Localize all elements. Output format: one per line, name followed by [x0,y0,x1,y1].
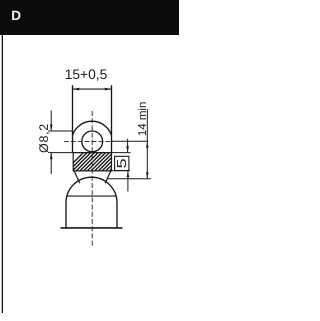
eyelet boss outer arc [73,121,112,135]
svg-text:14 min: 14 min [137,102,149,137]
dimension Ø8,2 upper arrow [50,111,52,132]
socket cup dome seam chord [67,195,116,197]
extension line socket shoulder (14 min bottom) [108,178,152,180]
eyelet hole circle Ø8,2 [82,131,103,152]
socket cup bottom edge [61,227,123,229]
socket cup left side [65,203,67,228]
weld neck left side [74,171,80,183]
horizontal centerline [64,140,113,142]
socket cup right side [116,203,118,228]
washer hatch lines [64,151,129,172]
boxed dimension text 5 [115,156,129,170]
svg-text:D: D [11,8,21,23]
extension line hole top tangent [48,130,72,132]
dimension Ø8,2 lower arrow [50,153,52,174]
washer hatched band [73,153,111,171]
dimension 5 upper outside arrow [127,139,129,153]
svg-text:15+0,5: 15+0,5 [65,67,108,82]
extension line hole bottom tangent / washer top [48,152,130,154]
socket cup domed top arc [66,177,117,202]
svg-text:5: 5 [114,158,129,168]
dimension 5 lower outside arrow [127,171,129,192]
weld neck right side [105,171,111,183]
arrowhead 14 min down [146,172,149,179]
dimension line 14 min [146,109,148,179]
eyelet block right side / extension line [111,85,113,153]
header bar [0,0,179,35]
eyelet block left side / extension line [72,85,74,153]
arrowhead right of 15+0,5 [105,88,112,91]
vertical centerline [91,111,93,247]
svg-text:Ø8,2: Ø8,2 [37,123,51,153]
left page rule [2,35,3,313]
arrowhead left of 15+0,5 [73,88,80,91]
arrowhead 14 min up [146,141,149,148]
dimension line 15+0,5 [73,88,112,90]
extension line eye center (14 min top) [112,140,148,142]
extension line washer bottom [112,170,131,172]
page background [0,0,182,321]
